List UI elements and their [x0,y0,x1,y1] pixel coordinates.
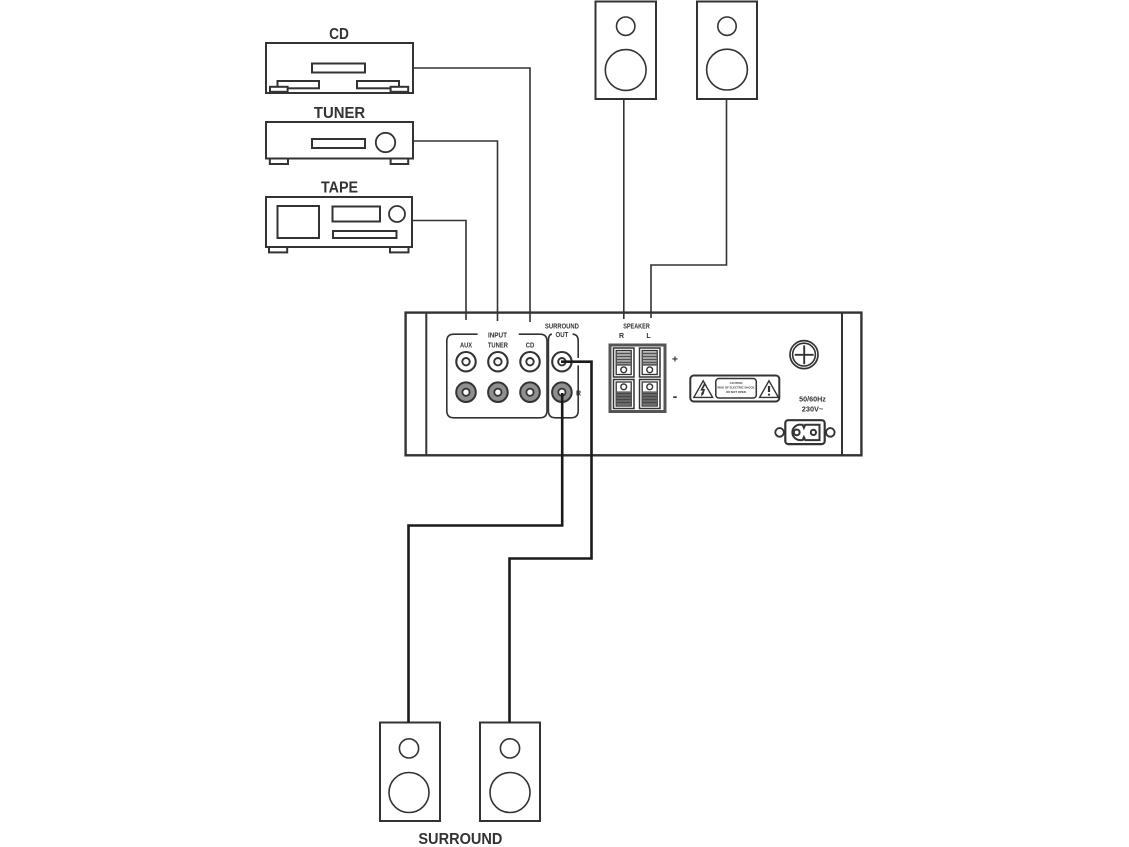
speaker terminal block [610,345,665,412]
wire right main speaker to SPEAKER R terminal [623,99,625,319]
wire CD to CD input [413,68,530,322]
svg-text:TUNER: TUNER [314,105,366,122]
svg-text:DO NOT OPEN: DO NOT OPEN [726,390,746,394]
svg-text:TAPE: TAPE [321,180,358,197]
svg-text:CAUTION: CAUTION [730,381,743,385]
R- terminal [614,380,635,409]
AUX L jack [456,352,475,371]
screw [790,341,818,369]
L- terminal [640,380,661,409]
svg-text:L: L [646,333,651,340]
left surround speaker [380,723,440,822]
right surround speaker [480,723,540,822]
CD L jack [520,352,539,371]
INPUT group outline [447,334,547,418]
svg-text:+: + [672,354,678,366]
SURROUND OUT R jack [552,382,572,402]
wire TAPE to AUX input [412,221,466,321]
warning label [690,376,779,402]
TUNER L jack [488,352,507,371]
CD player [266,43,413,93]
tuner [266,122,413,164]
R+ terminal [614,348,635,377]
CD R jack [520,382,540,402]
right main speaker (top left box) [596,2,657,100]
svg-text:SPEAKER: SPEAKER [623,323,650,330]
svg-text:SURROUND: SURROUND [418,831,502,847]
L+ terminal [640,348,661,377]
TUNER R jack [488,382,508,402]
svg-text:230V~: 230V~ [802,404,824,413]
svg-text:CD: CD [329,26,349,43]
svg-text:SURROUND: SURROUND [545,323,579,330]
svg-text:INPUT: INPUT [488,332,508,339]
svg-text:-: - [673,388,678,404]
svg-text:CD: CD [526,343,535,350]
left main speaker (top right box) [697,2,757,100]
svg-text:OUT: OUT [556,332,569,339]
AUX R jack [456,382,476,402]
wire TUNER to TUNER input [413,141,498,321]
AC power inlet [775,420,834,444]
wire left main speaker to SPEAKER L terminal [651,99,727,318]
caution text box [716,379,757,399]
SURROUND OUT group outline [548,334,578,418]
cable SURROUND OUT L to right surround speaker [510,362,592,723]
hazard triangle lightning [694,381,713,398]
amplifier rear panel [406,313,862,456]
cable SURROUND OUT R to left surround speaker [409,393,563,723]
svg-text:R: R [576,390,581,397]
SURROUND OUT L jack [552,352,571,371]
tape deck [266,197,412,252]
svg-text:RISK OF ELECTRIC SHOCK: RISK OF ELECTRIC SHOCK [718,386,755,390]
svg-text:TUNER: TUNER [488,343,508,350]
svg-text:AUX: AUX [460,343,472,350]
hazard triangle exclamation [760,381,779,398]
svg-text:R: R [619,333,624,340]
svg-text:50/60Hz: 50/60Hz [799,394,826,403]
